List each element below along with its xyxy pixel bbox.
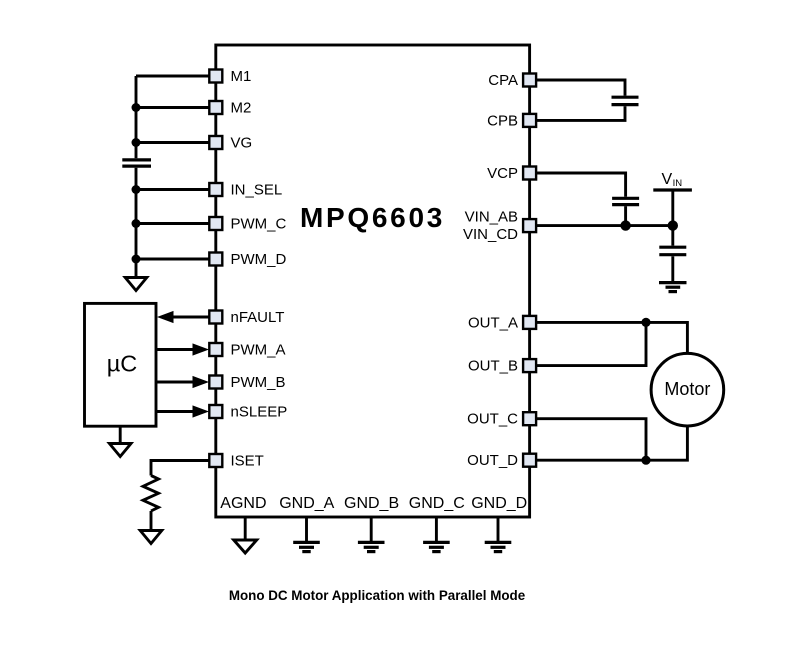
junction PWM_D <box>132 255 141 264</box>
svg-text:nFAULT: nFAULT <box>231 309 285 326</box>
wire VG branch <box>136 141 210 144</box>
pin CPA <box>523 74 536 87</box>
resistor RSET <box>143 476 159 512</box>
wire VIN net to capacitor C4 <box>671 226 674 246</box>
wire capacitor C3 to VIN net <box>624 206 627 225</box>
motor M <box>651 353 724 426</box>
svg-text:CPB: CPB <box>487 112 518 129</box>
junction VG <box>132 138 141 147</box>
svg-text:VCP: VCP <box>487 165 518 182</box>
pin PWM_B <box>209 376 222 389</box>
wire OUT_B branch <box>536 322 646 365</box>
junction PWM_C <box>132 219 141 228</box>
wire OUT_A to motor top <box>536 322 687 353</box>
ground GND_D earth <box>497 517 500 541</box>
supply VIN bar <box>653 188 692 191</box>
capacitor on left rail <box>122 160 151 166</box>
wire left rail upper segment <box>135 76 138 158</box>
svg-text:µC: µC <box>107 351 138 377</box>
wire CPA to capacitor C2 <box>536 80 625 96</box>
ground AGND <box>244 517 247 540</box>
capacitor C2 flying cap A-B <box>612 97 639 104</box>
pin VG <box>209 136 222 149</box>
wire M2 branch <box>136 106 210 109</box>
wire OUT_D to motor bottom <box>536 426 687 460</box>
ground uC <box>119 426 122 443</box>
svg-text:nSLEEP: nSLEEP <box>231 404 288 421</box>
capacitor C4 VIN bulk <box>659 247 686 255</box>
svg-text:OUT_D: OUT_D <box>467 452 518 469</box>
wire PWM_A arrow from uC <box>156 348 194 351</box>
junction M2 <box>132 103 141 112</box>
svg-text:GND_C: GND_C <box>409 495 465 512</box>
svg-text:CPA: CPA <box>488 72 518 89</box>
ground resistor <box>140 531 162 544</box>
pin M1 <box>209 70 222 83</box>
wire PWM_D branch <box>136 258 210 261</box>
junction VIN supply <box>668 220 678 230</box>
ground left rail <box>125 278 147 291</box>
pin OUT_C <box>523 412 536 425</box>
junction OUT_A OUT_B <box>641 318 650 327</box>
wire IN_SEL branch <box>136 188 210 191</box>
svg-text:GND_D: GND_D <box>471 495 527 512</box>
wire resistor to ground <box>150 511 153 531</box>
svg-text:PWM_D: PWM_D <box>231 251 287 268</box>
wire left rail lower segment <box>135 168 138 278</box>
junction OUT_C OUT_D <box>641 456 650 465</box>
pin OUT_A <box>523 316 536 329</box>
svg-text:V: V <box>662 171 673 188</box>
junction IN_SEL <box>132 185 141 194</box>
svg-text:GND_A: GND_A <box>279 495 334 512</box>
wire capacitor C4 to ground <box>671 256 674 281</box>
ground GND_B earth <box>370 517 373 541</box>
svg-text:AGND: AGND <box>220 495 266 512</box>
svg-text:VIN_CD: VIN_CD <box>463 226 518 243</box>
ground GND_A earth <box>305 517 308 541</box>
wire OUT_C branch <box>536 419 646 461</box>
pin CPB <box>523 114 536 127</box>
pin nFAULT <box>209 311 222 324</box>
pin OUT_B <box>523 359 536 372</box>
pin VCP <box>523 167 536 180</box>
wire M1 to left rail <box>136 75 210 78</box>
svg-text:Motor: Motor <box>664 379 710 399</box>
svg-text:VG: VG <box>231 135 253 152</box>
svg-text:IN: IN <box>673 178 683 189</box>
wire VIN bar stem <box>671 190 674 226</box>
pin IN_SEL <box>209 183 222 196</box>
pin ISET <box>209 454 222 467</box>
capacitor C3 VCP <box>612 198 639 204</box>
svg-text:PWM_C: PWM_C <box>231 216 287 233</box>
svg-text:PWM_B: PWM_B <box>231 374 286 391</box>
microcontroller uC box <box>85 303 157 426</box>
svg-text:OUT_A: OUT_A <box>468 314 518 331</box>
wire capacitor C2 to CPB <box>536 106 625 120</box>
svg-text:OUT_B: OUT_B <box>468 358 518 375</box>
ground VIN earth <box>659 283 687 292</box>
IC U1 MPQ6603 body <box>216 45 530 517</box>
pin PWM_C <box>209 217 222 230</box>
svg-text:VIN_AB: VIN_AB <box>465 209 518 226</box>
junction VCP cap on VIN net <box>620 220 630 230</box>
svg-text:MPQ6603: MPQ6603 <box>300 202 445 233</box>
svg-text:PWM_A: PWM_A <box>231 342 286 359</box>
pin VIN_AB VIN_CD <box>523 219 536 232</box>
pin nSLEEP <box>209 405 222 418</box>
svg-text:OUT_C: OUT_C <box>467 411 518 428</box>
svg-text:IN_SEL: IN_SEL <box>231 182 283 199</box>
pin PWM_D <box>209 253 222 266</box>
pin PWM_A <box>209 343 222 356</box>
svg-text:ISET: ISET <box>231 453 264 470</box>
ground GND_C earth <box>435 517 438 541</box>
pin M2 <box>209 101 222 114</box>
svg-text:M2: M2 <box>231 100 252 117</box>
pin OUT_D <box>523 454 536 467</box>
svg-text:M1: M1 <box>231 68 252 85</box>
wire nFAULT arrow to uC <box>171 316 210 319</box>
svg-text:Mono DC Motor Application with: Mono DC Motor Application with Parallel … <box>229 588 525 603</box>
wire VCP to capacitor C3 <box>536 173 626 197</box>
wire nSLEEP arrow from uC <box>156 410 194 413</box>
wire PWM_B arrow from uC <box>156 381 194 384</box>
wire VIN_AB VIN_CD to VIN supply <box>536 224 673 227</box>
svg-text:GND_B: GND_B <box>344 495 399 512</box>
wire ISET <box>151 461 210 476</box>
wire PWM_C branch <box>136 222 210 225</box>
